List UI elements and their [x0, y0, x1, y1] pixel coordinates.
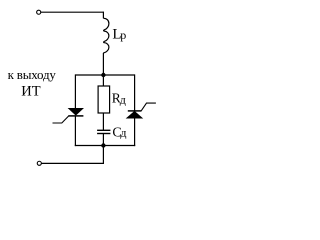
svg-text:д: д	[120, 93, 126, 107]
svg-text:р: р	[120, 28, 126, 42]
wire inductor to junction	[102, 53, 104, 75]
svg-text:д: д	[120, 126, 126, 140]
wire bottom rail	[75, 145, 135, 147]
terminal bottom-left	[37, 161, 41, 165]
wire left branch upper	[74, 74, 76, 108]
capacitor Cd plates	[97, 129, 110, 131]
wire to bottom terminal	[42, 146, 104, 164]
terminal top-left	[37, 10, 41, 14]
wire corner down to inductor	[102, 12, 104, 19]
wire top rail	[75, 74, 134, 76]
wire right branch upper	[134, 74, 136, 111]
wire top horizontal	[41, 11, 104, 13]
node junction top	[101, 73, 105, 77]
inductor Lp coil	[103, 18, 109, 53]
wire capacitor to bottom rail	[102, 134, 104, 147]
thyristor VS2 (right, conducts up)	[128, 110, 142, 112]
wire middle stub	[102, 75, 104, 86]
svg-text:ИТ: ИТ	[21, 84, 40, 100]
svg-text:к выходу: к выходу	[8, 67, 57, 82]
resistor Rd box	[98, 86, 110, 113]
node junction bottom	[101, 143, 105, 147]
wire left branch lower	[74, 116, 76, 146]
wire resistor to capacitor	[102, 113, 104, 130]
thyristor VS1 (left, conducts down)	[69, 108, 84, 115]
wire right branch lower	[134, 118, 136, 146]
